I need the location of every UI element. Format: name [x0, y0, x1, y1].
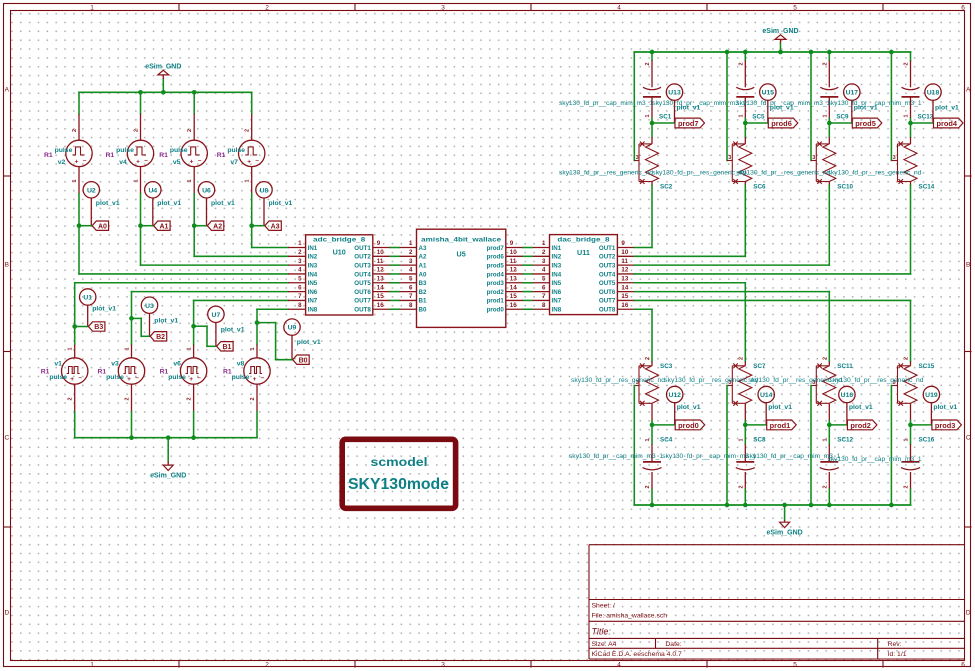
svg-text:7: 7	[542, 293, 546, 300]
svg-text:U14: U14	[760, 392, 773, 399]
capacitor SC13	[828, 61, 934, 121]
svg-text:2: 2	[645, 357, 651, 360]
svg-text:6: 6	[298, 284, 302, 291]
voltage source v6	[160, 345, 207, 412]
svg-text:+: +	[136, 158, 140, 165]
svg-text:SC10: SC10	[837, 184, 853, 191]
svg-text:R1: R1	[159, 152, 168, 159]
wire	[141, 226, 289, 265]
wire	[828, 421, 830, 425]
svg-text:OUT4: OUT4	[354, 271, 371, 278]
global label prod7	[675, 118, 705, 128]
resistor SC11	[748, 357, 853, 421]
svg-text:5: 5	[409, 275, 413, 282]
svg-text:U5: U5	[457, 249, 466, 258]
svg-text:9: 9	[621, 240, 625, 247]
wire	[140, 92, 142, 113]
svg-text:plot_v1: plot_v1	[297, 339, 321, 346]
wire substrate rail	[810, 52, 812, 161]
svg-text:R1: R1	[217, 152, 226, 159]
amisha_4bit_wallace U5	[399, 229, 523, 327]
svg-text:1: 1	[904, 114, 910, 117]
junction	[161, 90, 166, 95]
plot component U7	[208, 306, 245, 346]
global label prod5	[852, 118, 882, 128]
ground eSim_GND bottom-left	[150, 438, 186, 480]
svg-text:prod1: prod1	[487, 298, 505, 305]
wire substrate rail	[726, 52, 728, 161]
capacitor SC1	[559, 61, 672, 121]
svg-text:1: 1	[134, 179, 140, 182]
svg-text:2: 2	[904, 62, 910, 65]
svg-text:B3: B3	[419, 280, 427, 287]
svg-text:SC15: SC15	[919, 363, 935, 370]
svg-text:2: 2	[72, 129, 78, 132]
svg-text:8: 8	[298, 302, 302, 309]
wire	[744, 421, 746, 425]
svg-text:SC1: SC1	[659, 113, 672, 120]
svg-text:prod4: prod4	[936, 119, 957, 128]
wire	[252, 226, 289, 248]
wire	[256, 323, 258, 345]
resistor SC3	[571, 357, 673, 421]
junction	[138, 223, 143, 228]
resistor SC2	[559, 137, 673, 191]
svg-text:A0: A0	[419, 271, 427, 278]
svg-text:Id: 1/1: Id: 1/1	[888, 651, 907, 658]
svg-text:plot_v1: plot_v1	[211, 200, 235, 207]
svg-text:A2: A2	[213, 223, 222, 230]
svg-text:SC5: SC5	[752, 113, 765, 120]
svg-text:B1: B1	[222, 344, 231, 351]
svg-text:5: 5	[793, 5, 797, 12]
svg-text:prod7: prod7	[487, 245, 505, 252]
junction	[725, 50, 730, 55]
junction	[192, 90, 197, 95]
svg-text:–: –	[197, 375, 201, 382]
svg-text:2: 2	[68, 397, 74, 400]
svg-text:sky130_fd_pr__res_generic_nd: sky130_fd_pr__res_generic_nd	[652, 171, 746, 177]
svg-text:SC11: SC11	[837, 363, 853, 370]
svg-text:R1: R1	[98, 369, 107, 376]
wire	[193, 194, 195, 226]
svg-text:B1: B1	[419, 298, 427, 305]
svg-text:U8: U8	[260, 187, 269, 194]
wire	[140, 194, 142, 226]
svg-text:pulse: pulse	[116, 147, 134, 154]
svg-text:1: 1	[645, 438, 651, 441]
svg-text:eSim_GND: eSim_GND	[762, 28, 798, 35]
wire	[194, 300, 289, 326]
svg-text:U6: U6	[202, 187, 211, 194]
svg-text:prod5: prod5	[855, 119, 876, 128]
wire	[75, 326, 88, 328]
voltage source v1	[41, 345, 88, 412]
svg-text:1: 1	[245, 179, 251, 182]
wire substrate rail	[726, 386, 728, 506]
svg-text:U16: U16	[841, 392, 854, 399]
svg-text:3: 3	[441, 5, 445, 12]
wire	[79, 225, 91, 227]
svg-text:SKY130mode: SKY130mode	[348, 476, 449, 493]
svg-text:v1: v1	[54, 360, 62, 367]
svg-text:File: amisha_wallace.sch: File: amisha_wallace.sch	[592, 612, 668, 619]
svg-text:3: 3	[893, 155, 896, 161]
svg-text:2: 2	[822, 62, 828, 65]
svg-text:12: 12	[377, 267, 384, 274]
svg-text:4: 4	[617, 5, 621, 12]
svg-text:A1: A1	[159, 223, 168, 230]
svg-text:16: 16	[377, 302, 384, 309]
junction	[72, 324, 77, 329]
svg-text:U3: U3	[145, 303, 154, 310]
wire substrate rail	[890, 52, 892, 161]
svg-text:+: +	[189, 376, 193, 383]
svg-text:v7: v7	[230, 159, 238, 166]
svg-text:1: 1	[187, 347, 193, 350]
svg-text:B: B	[5, 262, 9, 269]
svg-text:sky130_fd_pr__res_generic_nd: sky130_fd_pr__res_generic_nd	[748, 378, 842, 384]
wire	[651, 123, 653, 137]
svg-text:OUT6: OUT6	[599, 289, 616, 296]
text scmodel SKY130mode box	[342, 439, 455, 508]
wire	[651, 421, 653, 425]
global label B1	[217, 342, 234, 351]
svg-text:D: D	[966, 610, 971, 617]
svg-text:v3: v3	[111, 360, 119, 367]
svg-text:2: 2	[822, 485, 828, 488]
svg-text:prod6: prod6	[771, 119, 792, 128]
wire	[74, 327, 76, 345]
svg-text:–: –	[135, 375, 139, 382]
junction	[908, 121, 913, 126]
svg-text:Date:: Date:	[665, 641, 681, 648]
svg-text:U12: U12	[668, 392, 681, 399]
svg-text:sky130_fd_pr__cap_mim_m3_1: sky130_fd_pr__cap_mim_m3_1	[828, 101, 923, 107]
wire	[744, 123, 746, 137]
svg-text:3: 3	[409, 258, 413, 265]
wire riser to DAC	[744, 185, 746, 256]
global label A3	[265, 221, 282, 230]
wire	[910, 52, 912, 61]
wire riser from DAC	[651, 309, 653, 361]
junction	[249, 223, 254, 228]
wire riser to DAC	[828, 185, 830, 265]
svg-text:12: 12	[621, 267, 628, 274]
svg-text:3: 3	[728, 155, 731, 161]
svg-text:prod2: prod2	[487, 289, 505, 296]
svg-text:U19: U19	[925, 392, 938, 399]
svg-text:B0: B0	[419, 307, 427, 314]
svg-text:A3: A3	[271, 223, 280, 230]
svg-text:8: 8	[542, 302, 546, 309]
wire	[194, 326, 216, 346]
svg-text:11: 11	[377, 258, 384, 265]
junction	[908, 423, 913, 428]
svg-text:sky130_fd_pr__res_generic_nd: sky130_fd_pr__res_generic_nd	[571, 378, 665, 384]
svg-text:2: 2	[542, 249, 546, 256]
global label B2	[150, 332, 167, 341]
svg-text:2: 2	[904, 485, 910, 488]
svg-text:4: 4	[542, 267, 546, 274]
svg-text:Size: A4: Size: A4	[592, 641, 617, 648]
svg-text:SC14: SC14	[919, 184, 935, 191]
svg-text:+: +	[247, 158, 251, 165]
svg-text:1: 1	[822, 438, 828, 441]
svg-text:scmodel: scmodel	[371, 455, 428, 469]
svg-text:sky130_fd_pr__cap_mim_m3_1: sky130_fd_pr__cap_mim_m3_1	[652, 101, 747, 107]
svg-text:5: 5	[793, 662, 797, 669]
svg-text:U17: U17	[846, 90, 859, 97]
svg-text:prod4: prod4	[487, 271, 505, 278]
wire riser to DAC	[651, 185, 653, 247]
svg-text:13: 13	[377, 275, 384, 282]
wire	[911, 122, 934, 124]
svg-text:10: 10	[377, 249, 384, 256]
svg-text:1: 1	[187, 179, 193, 182]
svg-text:plot_v1: plot_v1	[933, 404, 957, 411]
junction	[77, 223, 82, 228]
svg-text:eSim_GND: eSim_GND	[145, 63, 181, 70]
wire	[193, 326, 195, 344]
svg-text:1: 1	[409, 240, 413, 247]
svg-text:3: 3	[636, 155, 639, 161]
svg-text:IN3: IN3	[308, 262, 318, 269]
svg-text:sky130_fd_pr__cap_mim_m3_1: sky130_fd_pr__cap_mim_m3_1	[736, 101, 831, 107]
wires DAC outputs to right blocks	[634, 248, 910, 310]
wire	[651, 119, 653, 124]
svg-text:1: 1	[738, 114, 744, 117]
plot component U19	[923, 386, 957, 425]
svg-text:C: C	[966, 435, 971, 442]
junction	[650, 423, 655, 428]
wire	[910, 425, 912, 444]
svg-text:plot_v1: plot_v1	[157, 200, 181, 207]
svg-text:2: 2	[298, 249, 302, 256]
svg-text:13: 13	[510, 275, 517, 282]
svg-text:13: 13	[621, 275, 628, 282]
svg-text:B3: B3	[94, 324, 103, 331]
wire	[131, 318, 133, 344]
ground eSim_GND top-left	[145, 63, 181, 92]
junction	[827, 423, 832, 428]
svg-text:2: 2	[187, 129, 193, 132]
wire bottom-left bus	[75, 437, 257, 439]
svg-text:eSim_GND: eSim_GND	[767, 530, 803, 537]
svg-text:amisha_4bit_wallace: amisha_4bit_wallace	[421, 237, 501, 244]
svg-text:OUT3: OUT3	[354, 262, 371, 269]
wire	[652, 424, 675, 426]
svg-text:3: 3	[298, 258, 302, 265]
svg-text:IN8: IN8	[308, 307, 318, 314]
plot component U17	[844, 84, 878, 123]
svg-text:B: B	[966, 262, 970, 269]
wire	[79, 226, 288, 274]
svg-text:1: 1	[542, 240, 546, 247]
wire top-right ground bus	[634, 51, 910, 53]
svg-text:B2: B2	[156, 334, 165, 341]
svg-text:Title:: Title:	[592, 627, 612, 637]
svg-text:7: 7	[298, 293, 302, 300]
wire stubs between ICs	[390, 248, 532, 310]
wire substrate rail	[633, 52, 635, 161]
svg-text:A1: A1	[419, 262, 427, 269]
svg-text:plot_v1: plot_v1	[96, 200, 120, 207]
junction	[743, 503, 748, 508]
svg-text:3: 3	[812, 155, 815, 161]
svg-text:A: A	[966, 87, 971, 94]
wire	[257, 323, 292, 360]
svg-text:prod6: prod6	[487, 254, 505, 261]
wire riser from DAC	[744, 283, 746, 362]
svg-text:1: 1	[125, 347, 131, 350]
svg-text:3: 3	[441, 662, 445, 669]
voltage source v5	[159, 114, 207, 194]
svg-text:R1: R1	[44, 152, 53, 159]
plot component U15	[760, 84, 794, 123]
svg-text:–: –	[78, 375, 82, 382]
svg-text:U4: U4	[148, 187, 157, 194]
svg-text:6: 6	[961, 662, 965, 669]
svg-text:16: 16	[621, 302, 628, 309]
wire	[828, 425, 830, 444]
wire riser from DAC	[828, 292, 830, 362]
svg-text:1: 1	[72, 179, 78, 182]
svg-text:IN6: IN6	[308, 289, 318, 296]
junction	[650, 121, 655, 126]
svg-text:sky130_fd_pr__cap_mim_m3_1: sky130_fd_pr__cap_mim_m3_1	[828, 457, 923, 463]
svg-text:6: 6	[542, 284, 546, 291]
wire	[744, 425, 746, 444]
svg-text:4: 4	[617, 662, 621, 669]
svg-text:SC9: SC9	[836, 113, 849, 120]
plot component U16	[839, 386, 873, 425]
plot component U14	[758, 386, 792, 425]
svg-text:OUT5: OUT5	[599, 280, 616, 287]
svg-text:plot_v1: plot_v1	[154, 317, 178, 324]
resistor SC10	[736, 137, 853, 191]
junction	[138, 90, 143, 95]
wire	[745, 122, 768, 124]
svg-text:sky130_fd_pr__res_generic_nd: sky130_fd_pr__res_generic_nd	[828, 171, 922, 177]
wire	[193, 412, 195, 438]
svg-text:IN5: IN5	[308, 280, 318, 287]
svg-text:U15: U15	[762, 90, 775, 97]
svg-text:C: C	[4, 435, 9, 442]
svg-text:2: 2	[738, 485, 744, 488]
svg-text:prod2: prod2	[850, 421, 871, 430]
svg-text:A2: A2	[419, 254, 427, 261]
wire	[252, 225, 264, 227]
svg-text:prod5: prod5	[487, 262, 505, 269]
svg-text:Sheet: /: Sheet: /	[592, 602, 616, 609]
svg-text:+: +	[75, 158, 79, 165]
plot component U12	[667, 386, 701, 425]
svg-text:OUT1: OUT1	[354, 245, 371, 252]
wire	[651, 425, 653, 444]
svg-text:11: 11	[621, 258, 628, 265]
junction	[725, 503, 730, 508]
wire	[829, 424, 847, 426]
wire bottom-right ground bus	[634, 504, 910, 506]
svg-text:2: 2	[245, 129, 251, 132]
svg-text:plot_v1: plot_v1	[935, 104, 959, 111]
svg-text:15: 15	[621, 293, 628, 300]
svg-text:OUT4: OUT4	[599, 271, 616, 278]
junction	[743, 423, 748, 428]
voltage source v4	[106, 114, 154, 194]
svg-text:OUT5: OUT5	[354, 280, 371, 287]
svg-text:2: 2	[738, 62, 744, 65]
junction	[166, 435, 171, 440]
svg-text:eSim_GND: eSim_GND	[150, 473, 186, 480]
wire	[78, 194, 80, 226]
svg-text:SC4: SC4	[660, 437, 673, 444]
svg-text:prod1: prod1	[770, 421, 791, 430]
capacitor SC5	[652, 61, 765, 121]
global label B0	[293, 355, 310, 364]
svg-text:4: 4	[409, 267, 413, 274]
svg-text:KiCad E.D.A. eeschema 4.0.7: KiCad E.D.A. eeschema 4.0.7	[592, 651, 683, 658]
svg-text:+: +	[190, 158, 194, 165]
svg-text:dac_bridge_8: dac_bridge_8	[557, 236, 609, 243]
svg-text:v2: v2	[58, 159, 66, 166]
wire	[828, 123, 830, 137]
svg-text:4: 4	[298, 267, 302, 274]
svg-text:prod3: prod3	[935, 421, 956, 430]
wire	[251, 92, 253, 113]
svg-text:U1: U1	[83, 295, 92, 302]
svg-text:R1: R1	[41, 369, 50, 376]
capacitor SC12	[746, 437, 853, 490]
svg-text:prod3: prod3	[487, 280, 505, 287]
junction	[129, 435, 134, 440]
plot component U1	[80, 289, 117, 327]
global label A0	[92, 221, 109, 230]
svg-text:A: A	[5, 87, 10, 94]
svg-text:2: 2	[134, 129, 140, 132]
svg-text:2: 2	[409, 249, 413, 256]
wire	[251, 194, 253, 226]
adc_bridge_8 U10	[288, 235, 390, 315]
wire top-left bus	[79, 91, 252, 93]
svg-text:2: 2	[187, 397, 193, 400]
svg-text:1: 1	[68, 347, 74, 350]
svg-text:sky130_fd_pr__res_generic_nd: sky130_fd_pr__res_generic_nd	[830, 378, 924, 384]
svg-text:pulse: pulse	[55, 147, 73, 154]
plot component U3	[141, 297, 178, 336]
global label prod2	[847, 420, 877, 430]
svg-text:pulse: pulse	[170, 147, 188, 154]
svg-text:U13: U13	[668, 90, 681, 97]
svg-text:OUT1: OUT1	[599, 245, 616, 252]
global label prod4	[934, 118, 964, 128]
svg-text:IN2: IN2	[308, 254, 318, 261]
global label B3	[88, 322, 105, 331]
plot component U18	[925, 84, 959, 123]
svg-text:–: –	[261, 375, 265, 382]
wire	[256, 412, 258, 438]
svg-text:SC7: SC7	[753, 363, 766, 370]
global label prod1	[767, 420, 797, 430]
svg-text:6: 6	[409, 284, 413, 291]
svg-text:Rev:: Rev:	[888, 641, 902, 648]
svg-text:OUT6: OUT6	[354, 289, 371, 296]
svg-text:–: –	[198, 157, 202, 164]
svg-text:1: 1	[90, 5, 94, 12]
svg-text:sky130_fd_pr__res_generic_nd: sky130_fd_pr__res_generic_nd	[664, 378, 758, 384]
wire	[132, 318, 150, 336]
